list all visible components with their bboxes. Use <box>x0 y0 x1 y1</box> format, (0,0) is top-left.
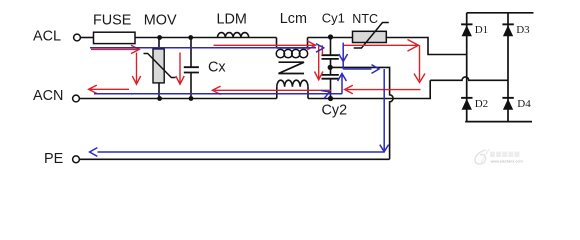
svg-text:ACN: ACN <box>33 88 63 104</box>
svg-text:D4: D4 <box>517 98 531 110</box>
svg-text:Lcm: Lcm <box>280 11 307 27</box>
svg-text:D3: D3 <box>516 24 530 36</box>
svg-text:NTC: NTC <box>352 12 378 26</box>
svg-text:ACL: ACL <box>33 29 61 45</box>
svg-text:www.elecfans.com: www.elecfans.com <box>491 158 523 163</box>
svg-text:D1: D1 <box>475 24 488 36</box>
svg-text:MOV: MOV <box>144 13 177 29</box>
svg-text:Cy2: Cy2 <box>322 102 348 118</box>
svg-text:Cy1: Cy1 <box>322 11 345 26</box>
svg-text:FUSE: FUSE <box>93 13 131 29</box>
svg-text:Cx: Cx <box>208 60 226 76</box>
svg-text:D2: D2 <box>475 98 488 110</box>
svg-text:PE: PE <box>44 151 63 167</box>
svg-text:LDM: LDM <box>217 11 247 27</box>
